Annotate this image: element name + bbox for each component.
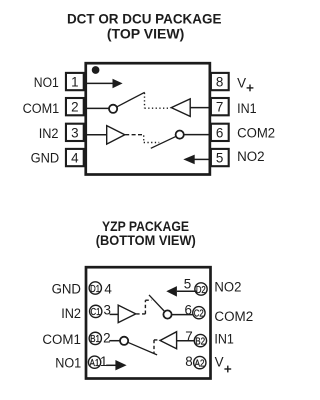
svg-text:8: 8 bbox=[185, 354, 192, 369]
pin 4 box bbox=[66, 149, 84, 166]
svg-text:4: 4 bbox=[104, 282, 112, 297]
ball A2 bbox=[194, 356, 206, 368]
dashed control line from IN2 buffer bbox=[125, 134, 144, 136]
svg-text:COM1: COM1 bbox=[42, 332, 81, 347]
svg-text:C1: C1 bbox=[91, 307, 101, 318]
dashed control line vertical (YZP SW2) bbox=[144, 300, 146, 314]
svg-text:7: 7 bbox=[216, 100, 223, 115]
wire: IN1 buffer to pin 7 bbox=[190, 107, 209, 109]
svg-text:7: 7 bbox=[185, 329, 192, 344]
svg-text:(TOP VIEW): (TOP VIEW) bbox=[107, 25, 185, 41]
svg-text:4: 4 bbox=[71, 151, 79, 166]
svg-text:1: 1 bbox=[100, 354, 107, 369]
switch arm SW2 bbox=[151, 136, 176, 148]
dashed control stub to arm (YZP SW2) bbox=[145, 299, 151, 301]
wire: NO2 row (ball D2) bbox=[177, 290, 197, 292]
pin 2 box bbox=[66, 98, 84, 115]
switch arm SW1 (YZP) bbox=[128, 342, 157, 355]
svg-text:NO1: NO1 bbox=[55, 356, 81, 371]
dotted control line vertical (SW1) bbox=[144, 93, 146, 108]
dashed control line vertical (YZP SW1) bbox=[153, 340, 155, 354]
svg-text:5: 5 bbox=[184, 277, 191, 292]
svg-text:GND: GND bbox=[52, 282, 82, 297]
wire: IN1 buffer to ball B2 bbox=[177, 340, 195, 342]
svg-text:V: V bbox=[237, 76, 246, 91]
wire: IN2 pin 3 into package bbox=[87, 134, 107, 136]
dotted control line vertical (SW2) bbox=[143, 135, 145, 142]
ball A1 bbox=[88, 356, 100, 368]
svg-text:NO2: NO2 bbox=[214, 280, 241, 295]
wire: NO2 pin 5 into package bbox=[194, 158, 209, 160]
switch pole circle SW2 (COM2, YZP) bbox=[163, 310, 171, 318]
svg-text:3: 3 bbox=[71, 125, 78, 140]
svg-text:IN1: IN1 bbox=[237, 101, 257, 116]
ball C1 bbox=[90, 305, 102, 317]
package U1 outline (DCT/DCU top view) bbox=[86, 63, 210, 174]
dotted control line horizontal to IN1 buffer bbox=[145, 107, 171, 109]
svg-text:D2: D2 bbox=[196, 285, 206, 296]
svg-text:8: 8 bbox=[216, 74, 223, 89]
pin 7 box bbox=[211, 98, 229, 115]
svg-text:(BOTTOM VIEW): (BOTTOM VIEW) bbox=[96, 232, 196, 248]
svg-text:1: 1 bbox=[71, 74, 78, 89]
package U2 outline (YZP bottom view) bbox=[86, 267, 211, 378]
svg-text:B2: B2 bbox=[195, 336, 205, 347]
wire: COM1 (ball B1) to switch bbox=[109, 340, 120, 342]
pin 6 box bbox=[211, 124, 229, 141]
wire: COM2 circle to ball C2 bbox=[172, 314, 194, 316]
svg-text:COM2: COM2 bbox=[214, 309, 253, 324]
svg-text:6: 6 bbox=[216, 125, 223, 140]
wire: NO1 row (ball A1) bbox=[106, 364, 116, 366]
svg-text:D1: D1 bbox=[90, 284, 100, 295]
switch pole circle SW1 (COM1, YZP) bbox=[120, 337, 128, 345]
arrowhead on NO2 wire (YZP) bbox=[166, 286, 177, 297]
plus sign of V+ (pin 8) bbox=[247, 87, 254, 89]
ball B1 bbox=[89, 332, 101, 344]
ball C2 bbox=[193, 307, 205, 319]
svg-text:IN1: IN1 bbox=[214, 331, 234, 346]
switch arm SW2 (YZP) bbox=[149, 295, 165, 312]
pin 1 box bbox=[66, 73, 84, 90]
arrowhead on NO2 wire bbox=[183, 155, 194, 165]
switch pole circle SW1 (COM1) bbox=[109, 105, 117, 113]
svg-text:C2: C2 bbox=[194, 309, 204, 320]
svg-text:DCT OR DCU PACKAGE: DCT OR DCU PACKAGE bbox=[67, 11, 222, 27]
buffer triangle U2A (IN1, YZP) bbox=[160, 332, 177, 349]
svg-text:V: V bbox=[215, 355, 224, 370]
svg-text:IN2: IN2 bbox=[61, 306, 81, 321]
buffer triangle U1A (IN1) bbox=[171, 99, 190, 117]
pin 3 box bbox=[66, 124, 84, 141]
svg-text:COM2: COM2 bbox=[237, 126, 275, 141]
arrowhead on NO1 wire bbox=[113, 79, 123, 88]
svg-text:2: 2 bbox=[71, 100, 78, 115]
svg-text:IN2: IN2 bbox=[39, 126, 59, 141]
svg-text:NO1: NO1 bbox=[34, 75, 59, 90]
svg-text:B1: B1 bbox=[90, 334, 100, 345]
svg-text:5: 5 bbox=[216, 151, 223, 166]
buffer triangle U1B (IN2) bbox=[107, 126, 125, 145]
arrowhead on NO1 wire (YZP) bbox=[115, 360, 126, 370]
plus sign of V+ (ball A2) bbox=[224, 368, 231, 370]
svg-text:2: 2 bbox=[103, 330, 110, 345]
svg-text:GND: GND bbox=[31, 150, 60, 165]
svg-text:A2: A2 bbox=[195, 358, 205, 369]
wire: COM2 circle to pin 6 bbox=[184, 134, 210, 136]
dotted control line horizontal (SW2) bbox=[144, 142, 160, 144]
ball B2 bbox=[194, 334, 206, 346]
pin 1 indicator dot bbox=[92, 66, 100, 74]
svg-text:A1: A1 bbox=[89, 358, 99, 369]
wire: IN2 (ball C1) to buffer bbox=[110, 313, 119, 315]
svg-text:NO2: NO2 bbox=[237, 149, 265, 164]
pin 5 box bbox=[211, 149, 229, 166]
pin 8 box bbox=[211, 73, 229, 90]
dashed control line from IN2 buffer (YZP) bbox=[136, 313, 145, 315]
dashed control stub to buffer tip (YZP SW1) bbox=[154, 339, 160, 341]
wire: NO1 pin 1 into package bbox=[87, 82, 113, 84]
ball D1 bbox=[89, 282, 101, 294]
svg-text:COM1: COM1 bbox=[23, 101, 60, 116]
ball D2 bbox=[195, 283, 207, 295]
switch arm SW1 bbox=[117, 92, 145, 107]
buffer triangle U2B (IN2) bbox=[118, 305, 136, 323]
wire: COM1 pin 2 into package bbox=[87, 107, 109, 109]
switch pole circle SW2 (COM2) bbox=[176, 131, 184, 139]
